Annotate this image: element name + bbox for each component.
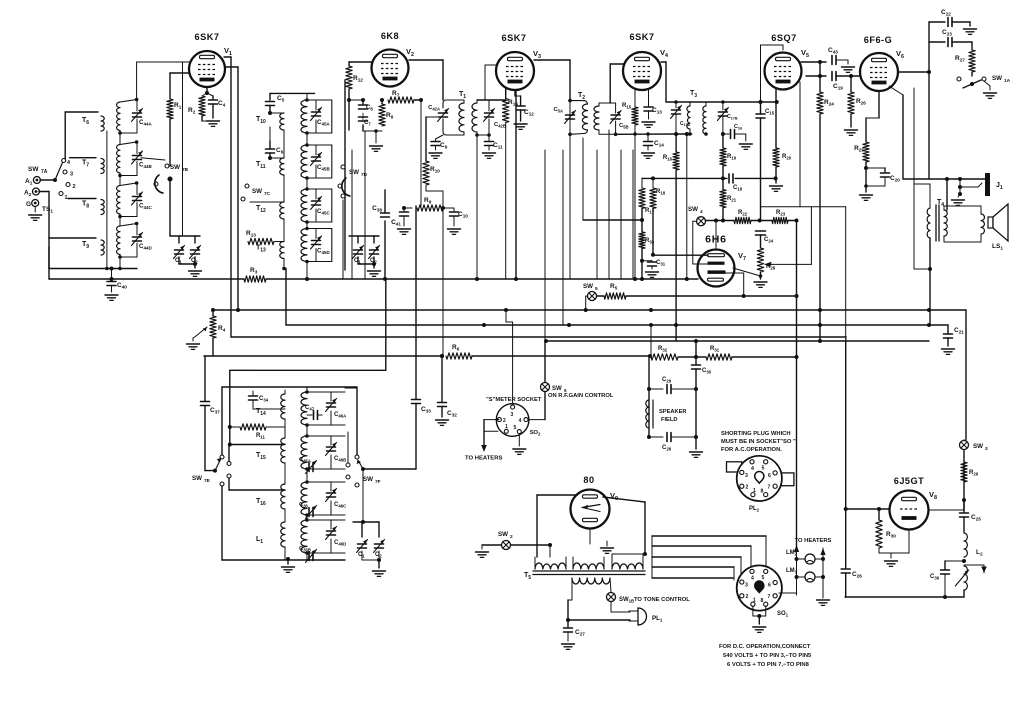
svg-text:R33: R33 <box>645 238 655 245</box>
svg-text:C35B: C35B <box>299 546 311 552</box>
svg-text:5: 5 <box>514 425 517 431</box>
svg-text:R32: R32 <box>658 346 668 353</box>
svg-text:7F: 7F <box>375 479 381 485</box>
svg-text:7C: 7C <box>264 191 271 197</box>
svg-text:C39: C39 <box>930 574 940 581</box>
svg-text:6J5GT: 6J5GT <box>894 476 925 486</box>
svg-text:C36: C36 <box>299 502 309 508</box>
svg-text:SW: SW <box>170 164 180 171</box>
svg-text:R31: R31 <box>710 346 720 353</box>
svg-text:2: 2 <box>510 534 513 540</box>
svg-text:1A: 1A <box>1004 78 1011 84</box>
svg-text:3: 3 <box>511 412 514 418</box>
svg-text:LM2: LM2 <box>786 550 798 557</box>
svg-text:SW: SW <box>552 386 562 392</box>
svg-text:7B: 7B <box>182 167 189 173</box>
svg-text:8: 8 <box>761 489 764 495</box>
svg-text:SW: SW <box>363 476 373 483</box>
svg-text:LM1: LM1 <box>786 568 798 575</box>
svg-text:5: 5 <box>595 286 598 292</box>
svg-text:C35A: C35A <box>299 457 311 463</box>
svg-text:PL2: PL2 <box>749 506 760 513</box>
svg-text:2: 2 <box>746 485 749 491</box>
svg-text:3: 3 <box>985 446 988 452</box>
svg-text:R15: R15 <box>622 103 632 110</box>
svg-text:C28: C28 <box>662 445 672 452</box>
svg-text:R22: R22 <box>738 210 748 217</box>
svg-text:R23: R23 <box>776 210 786 217</box>
svg-text:R18: R18 <box>656 189 666 196</box>
svg-text:C31: C31 <box>656 260 666 267</box>
svg-text:C42B: C42B <box>494 122 506 128</box>
svg-text:R28: R28 <box>766 264 776 271</box>
svg-text:1: 1 <box>753 598 756 604</box>
svg-text:R11: R11 <box>256 433 265 440</box>
svg-text:C18: C18 <box>733 185 743 192</box>
svg-text:SO2: SO2 <box>530 430 541 436</box>
svg-text:SW: SW <box>973 443 983 450</box>
svg-text:SW: SW <box>192 475 202 482</box>
svg-text:R19: R19 <box>727 154 737 161</box>
svg-text:4: 4 <box>751 466 754 472</box>
svg-text:2: 2 <box>746 594 749 600</box>
svg-text:C47: C47 <box>305 405 315 412</box>
svg-text:C24: C24 <box>764 237 774 244</box>
svg-text:SW: SW <box>28 166 39 173</box>
svg-text:SW: SW <box>992 75 1002 82</box>
svg-text:G: G <box>26 201 31 208</box>
svg-text:TO HEATERS: TO HEATERS <box>795 538 832 544</box>
svg-text:7: 7 <box>768 594 771 600</box>
svg-text:FOR D.C. OPERATION,CONNECT: FOR D.C. OPERATION,CONNECT <box>719 644 811 650</box>
svg-text:SW: SW <box>498 531 508 538</box>
svg-text:7E: 7E <box>204 478 211 484</box>
svg-text:R20: R20 <box>782 154 792 161</box>
svg-text:6SQ7: 6SQ7 <box>771 33 797 43</box>
svg-text:C46C: C46C <box>334 502 346 509</box>
svg-text:4: 4 <box>519 418 522 424</box>
svg-text:5: 5 <box>762 466 765 472</box>
svg-text:6K8: 6K8 <box>381 31 399 41</box>
svg-text:FOR A.C.OPERATION.: FOR A.C.OPERATION. <box>721 447 782 453</box>
svg-text:4: 4 <box>751 576 754 582</box>
svg-text:8: 8 <box>761 598 764 604</box>
svg-text:2: 2 <box>73 184 76 190</box>
svg-text:C34: C34 <box>259 396 269 403</box>
svg-text:ON R.F.GAIN CONTROL: ON R.F.GAIN CONTROL <box>548 393 614 399</box>
svg-text:6SK7: 6SK7 <box>195 32 220 42</box>
svg-text:6SK7: 6SK7 <box>502 33 527 43</box>
svg-text:1: 1 <box>753 488 756 494</box>
svg-text:R21: R21 <box>727 196 737 203</box>
svg-text:SW: SW <box>583 283 593 290</box>
svg-text:C8: C8 <box>366 105 373 112</box>
svg-text:SHORTING PLUG WHICH: SHORTING PLUG WHICH <box>721 431 791 437</box>
svg-text:80: 80 <box>583 475 594 485</box>
svg-text:4: 4 <box>700 209 703 215</box>
svg-text:TO TONE CONTROL: TO TONE CONTROL <box>634 597 690 603</box>
svg-text:6F6-G: 6F6-G <box>864 35 893 45</box>
svg-text:C46D: C46D <box>334 540 346 547</box>
svg-text:540 VOLTS + TO PIN 3,−TO PIN: 540 VOLTS + TO PIN 3,−TO PIN5 <box>723 653 812 659</box>
svg-text:C15: C15 <box>765 109 775 116</box>
svg-text:R29: R29 <box>969 470 979 477</box>
svg-text:"S"METER SOCKET: "S"METER SOCKET <box>486 397 542 403</box>
svg-text:6SK7: 6SK7 <box>630 32 655 42</box>
svg-text:6: 6 <box>768 473 771 479</box>
svg-text:7: 7 <box>768 485 771 491</box>
svg-text:SW: SW <box>252 188 262 195</box>
svg-text:1: 1 <box>505 424 508 430</box>
svg-text:FIELD: FIELD <box>661 417 677 423</box>
svg-text:C29: C29 <box>662 377 672 384</box>
svg-text:TO HEATERS: TO HEATERS <box>465 456 502 462</box>
svg-text:5: 5 <box>762 575 765 581</box>
svg-text:R16: R16 <box>663 155 673 162</box>
svg-text:C5B: C5B <box>619 123 629 129</box>
svg-text:C30: C30 <box>702 368 712 375</box>
svg-text:6: 6 <box>768 583 771 589</box>
svg-text:SW1B: SW1B <box>619 597 634 604</box>
svg-text:7D: 7D <box>361 172 368 178</box>
svg-text:C46A: C46A <box>334 412 346 419</box>
svg-text:3: 3 <box>745 473 748 479</box>
svg-text:C5A: C5A <box>553 107 563 113</box>
svg-text:6 VOLTS + TO PIN 7,−TO PIN8: 6 VOLTS + TO PIN 7,−TO PIN8 <box>727 662 810 668</box>
svg-text:3: 3 <box>745 583 748 589</box>
svg-text:MUST BE IN SOCKET"SO ": MUST BE IN SOCKET"SO " <box>721 439 796 445</box>
svg-text:3: 3 <box>70 172 73 178</box>
svg-text:C46B: C46B <box>334 456 346 463</box>
svg-text:SPEAKER: SPEAKER <box>659 409 687 415</box>
svg-text:C42A: C42A <box>428 105 440 111</box>
svg-text:7A: 7A <box>41 169 48 175</box>
svg-text:C16: C16 <box>734 124 743 130</box>
svg-text:1: 1 <box>65 195 68 201</box>
svg-text:C7: C7 <box>364 120 371 127</box>
svg-text:SW: SW <box>349 169 359 176</box>
svg-text:SW: SW <box>688 206 698 213</box>
svg-text:SO1: SO1 <box>777 611 789 618</box>
